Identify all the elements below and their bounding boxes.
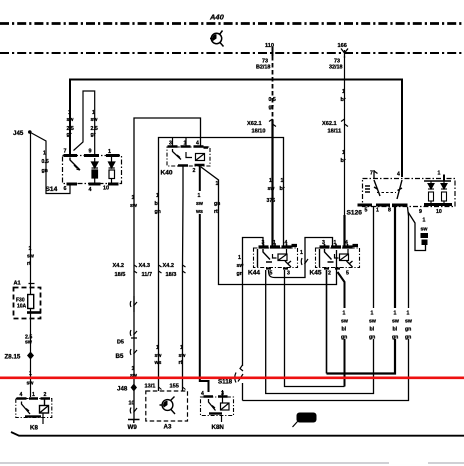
svg-text:7: 7 bbox=[370, 171, 373, 177]
svg-text:S14: S14 bbox=[46, 186, 58, 193]
svg-text:gn: gn bbox=[392, 335, 398, 341]
svg-text:sw: sw bbox=[421, 227, 429, 233]
K45 switch arm2 bbox=[347, 261, 353, 267]
svg-text:166: 166 bbox=[338, 43, 347, 49]
K8 pin labels bbox=[20, 392, 47, 398]
svg-text:110: 110 bbox=[265, 43, 274, 49]
wire J45 down to A1 bbox=[30, 133, 32, 282]
wire n-link S14 pin7/pin9 bbox=[74, 91, 95, 154]
wire S118 to U4 bbox=[242, 383, 244, 401]
svg-text:18/5: 18/5 bbox=[115, 272, 126, 278]
wire K44 to U3 bbox=[266, 207, 374, 394]
wire bold U K45 to S126 bbox=[327, 207, 396, 374]
svg-text:5: 5 bbox=[365, 208, 368, 214]
svg-text:Z8.15: Z8.15 bbox=[5, 354, 21, 361]
connector X4.3 11/7 bbox=[139, 263, 153, 278]
S126 dash-dot housing bbox=[363, 179, 456, 207]
A1 bottom terminal bbox=[27, 311, 41, 314]
suppressor blob bbox=[421, 233, 429, 245]
relay K44 bbox=[248, 240, 298, 277]
svg-text:0.5: 0.5 bbox=[269, 97, 276, 103]
svg-text:B2/18: B2/18 bbox=[256, 65, 270, 71]
svg-text:X4.3: X4.3 bbox=[139, 263, 151, 269]
svg-text:1: 1 bbox=[132, 195, 135, 201]
K8N top terminal bars bbox=[204, 395, 228, 398]
S126 gang dash link bbox=[377, 192, 396, 194]
K8N dash-dot housing bbox=[201, 397, 234, 416]
svg-text:bl: bl bbox=[393, 327, 398, 333]
svg-text:7: 7 bbox=[64, 149, 67, 155]
relay K8 bbox=[16, 392, 52, 432]
K8 coil bbox=[40, 399, 49, 414]
svg-text:32/18: 32/18 bbox=[329, 65, 343, 71]
svg-text:gn: gn bbox=[369, 335, 375, 341]
svg-text:rt: rt bbox=[179, 360, 183, 366]
wire bus L1 to K40 pin4 bbox=[134, 118, 201, 268]
svg-text:sw: sw bbox=[67, 117, 75, 123]
svg-text:6: 6 bbox=[64, 186, 67, 192]
svg-text:1: 1 bbox=[132, 366, 135, 372]
wire K40 pin2 down to K8N (bold) bbox=[200, 166, 209, 392]
K40 switch arm bbox=[173, 149, 182, 160]
A1 dashed housing bbox=[14, 288, 41, 319]
svg-text:gn: gn bbox=[405, 327, 411, 333]
svg-text:1: 1 bbox=[342, 150, 345, 156]
svg-text:sw: sw bbox=[392, 319, 400, 325]
wire K40 pin1 stub bbox=[185, 138, 187, 147]
K45 coil bbox=[335, 249, 349, 261]
relay K8N bbox=[201, 390, 234, 431]
svg-text:A40: A40 bbox=[209, 13, 225, 22]
svg-text:375: 375 bbox=[267, 198, 276, 204]
S14 top terminal bars bbox=[64, 154, 120, 157]
K8N switch arm bbox=[209, 399, 216, 411]
svg-text:D5: D5 bbox=[117, 340, 124, 346]
wire S14 pin6 to J45 bbox=[31, 133, 71, 194]
wire label 1 sw bbox=[267, 178, 276, 204]
svg-text:2: 2 bbox=[193, 168, 196, 174]
gong icon bbox=[160, 397, 176, 415]
K45 dash-dot housing bbox=[316, 248, 360, 268]
svg-text:bl: bl bbox=[370, 327, 375, 333]
connector X4.2 18/5 bbox=[113, 263, 126, 278]
svg-text:18/10: 18/10 bbox=[252, 129, 266, 135]
K8N pin labels bbox=[201, 391, 224, 397]
wire label 1 gn bbox=[214, 181, 220, 215]
svg-text:1: 1 bbox=[216, 181, 219, 187]
S126 diode branch bar bbox=[424, 180, 451, 182]
wire K44 pin3 feed from S118 bbox=[243, 238, 264, 367]
wire label 1 sw bbox=[195, 193, 204, 215]
svg-text:sw: sw bbox=[237, 263, 245, 269]
K45 bottom pins bbox=[324, 267, 340, 269]
svg-text:S126: S126 bbox=[347, 210, 363, 217]
wire K40 pin3 stub bbox=[172, 138, 174, 147]
svg-text:sw: sw bbox=[130, 203, 138, 209]
svg-text:8: 8 bbox=[388, 208, 391, 214]
svg-text:1: 1 bbox=[43, 151, 46, 157]
connector S118/4 bbox=[235, 365, 243, 383]
svg-text:1: 1 bbox=[238, 255, 241, 261]
S126 switch arm 1 bbox=[365, 180, 380, 196]
svg-text:br: br bbox=[341, 158, 346, 164]
S14 pin labels top bbox=[64, 149, 112, 156]
relay K45 bbox=[310, 240, 360, 277]
S126 switch arm 2 bbox=[397, 180, 402, 199]
svg-text:1: 1 bbox=[180, 345, 183, 351]
svg-text:2: 2 bbox=[44, 392, 47, 398]
svg-text:1: 1 bbox=[156, 345, 159, 351]
svg-text:18/3: 18/3 bbox=[166, 272, 177, 278]
K44 switch arm2 bbox=[285, 261, 291, 267]
connector X62.1 18/10 bbox=[247, 121, 266, 135]
switch unit S126 bbox=[347, 170, 456, 217]
svg-text:X4.2: X4.2 bbox=[113, 263, 125, 269]
svg-text:ws: ws bbox=[154, 360, 162, 366]
wire label 1 sw (S118 wire) bbox=[237, 255, 245, 277]
svg-text:4: 4 bbox=[89, 187, 92, 193]
svg-text:K40: K40 bbox=[161, 170, 173, 177]
S126 diode 2 bbox=[441, 181, 447, 204]
K8 dash-dot housing bbox=[16, 399, 52, 418]
wire x158 to 13/1 bbox=[158, 195, 160, 391]
terminal 30 red line bbox=[0, 376, 464, 379]
K44 top terminal bars bbox=[259, 246, 298, 248]
svg-text:rt: rt bbox=[214, 209, 218, 215]
wire label 1 sw (S14 pin7 wire) bbox=[67, 110, 75, 138]
K44 pin labels bbox=[262, 240, 288, 246]
svg-text:J45: J45 bbox=[13, 130, 24, 137]
connector X4.2 18/3 bbox=[163, 263, 177, 278]
S14 middle diode branch bbox=[92, 158, 99, 184]
svg-text:W9: W9 bbox=[128, 424, 138, 431]
control unit A3 bbox=[146, 391, 188, 431]
svg-text:10: 10 bbox=[103, 186, 109, 192]
ground rail bottom bbox=[11, 432, 464, 436]
wire S126 pin9 down to U4 bbox=[243, 207, 409, 401]
K40 pin labels bbox=[169, 141, 199, 147]
fuse box A1 bbox=[14, 281, 42, 320]
svg-text:gr: gr bbox=[91, 132, 96, 138]
wire labels 1 (x158) bbox=[154, 345, 163, 366]
wire K45 pin2 to bold U bbox=[326, 270, 328, 374]
svg-text:S118: S118 bbox=[218, 379, 233, 386]
S14 bottom terminal bars bbox=[67, 183, 119, 186]
svg-text:ws: ws bbox=[195, 209, 203, 215]
wire label 1 sw (x134) bbox=[130, 195, 138, 209]
wire label 1 sw above J48 bbox=[130, 366, 138, 379]
K40 coil bbox=[186, 152, 205, 161]
S126 diode 1 bbox=[428, 181, 434, 204]
wire label 1 bl (x158) bbox=[155, 193, 161, 215]
svg-text:gn: gn bbox=[155, 209, 161, 215]
S126 bottom terminal bars bbox=[358, 203, 453, 207]
wire label 1 br lower bbox=[341, 150, 346, 164]
wire label 0.5 gr bbox=[269, 97, 276, 111]
svg-text:gn: gn bbox=[214, 201, 220, 207]
page edge gray line bbox=[0, 462, 464, 464]
node A40 boundary dash-dot line top bbox=[0, 22, 464, 25]
svg-text:1: 1 bbox=[68, 110, 71, 116]
wire bus top rail to S14 pin7 and S126 pin4 bbox=[70, 80, 402, 178]
K8 top terminal bars bbox=[17, 397, 51, 400]
wire label 1 sw below Z8.15 bbox=[27, 371, 35, 387]
svg-text:10: 10 bbox=[436, 209, 442, 215]
svg-text:1: 1 bbox=[29, 371, 32, 377]
connector X62.1 18/11 bbox=[322, 121, 341, 135]
K8N coil bbox=[221, 397, 230, 411]
svg-text:1: 1 bbox=[198, 193, 201, 199]
svg-text:1: 1 bbox=[300, 250, 303, 256]
svg-text:0.5: 0.5 bbox=[42, 159, 49, 165]
svg-text:1: 1 bbox=[343, 311, 346, 317]
svg-text:gr: gr bbox=[67, 132, 72, 138]
svg-text:1: 1 bbox=[376, 208, 379, 214]
svg-text:A3: A3 bbox=[164, 424, 172, 431]
connector pair on x134 bbox=[130, 296, 137, 312]
K8 bottom bar bbox=[25, 415, 41, 417]
svg-text:1: 1 bbox=[394, 311, 397, 317]
svg-text:1: 1 bbox=[281, 178, 284, 184]
node A40 boundary dash-dot line bottom bbox=[0, 52, 464, 54]
wire K45 pin5 diagonal down bbox=[338, 272, 345, 387]
wire 110 bold to K44 pin1 bbox=[271, 120, 273, 246]
wire K40 pin to X4.2/18-3 bbox=[182, 166, 184, 195]
svg-text:sw: sw bbox=[341, 319, 349, 325]
svg-text:A1: A1 bbox=[14, 281, 21, 287]
svg-text:1: 1 bbox=[371, 311, 374, 317]
svg-text:sw: sw bbox=[369, 319, 377, 325]
svg-text:2: 2 bbox=[328, 271, 331, 277]
svg-text:gn: gn bbox=[405, 335, 411, 341]
K44 switch arm bbox=[258, 249, 273, 267]
wire x182 to 155 bbox=[182, 195, 185, 391]
K8 switch arm bbox=[22, 402, 31, 415]
svg-text:rt: rt bbox=[27, 261, 31, 267]
svg-text:1: 1 bbox=[29, 246, 32, 252]
wire 166 down to K45 pin4 bbox=[344, 56, 346, 215]
wire 110 dashed top bbox=[272, 56, 274, 120]
wire label 1 br bbox=[341, 89, 346, 103]
wire label 2.5 sw bbox=[25, 335, 33, 346]
node J45 bbox=[28, 130, 32, 134]
svg-text:10A: 10A bbox=[17, 304, 27, 310]
wire label 1 sw bbox=[27, 246, 35, 267]
connector on x305 bbox=[301, 258, 308, 265]
wire A1 to K8 bbox=[30, 319, 32, 397]
svg-text:gn: gn bbox=[42, 168, 48, 174]
node 110 junction bbox=[272, 47, 274, 56]
svg-text:K45: K45 bbox=[310, 270, 322, 277]
svg-text:X4.2: X4.2 bbox=[163, 263, 175, 269]
svg-text:1: 1 bbox=[269, 178, 272, 184]
svg-text:4: 4 bbox=[20, 392, 23, 398]
svg-text:3: 3 bbox=[287, 271, 290, 277]
relay K40 bbox=[161, 141, 211, 177]
wire bus L2 to K44 pin4 bbox=[159, 138, 284, 247]
S14 right resistor branch bbox=[109, 156, 115, 185]
svg-text:18/11: 18/11 bbox=[328, 129, 342, 135]
node 166 junction bbox=[341, 49, 348, 59]
K45 top terminal bars bbox=[320, 246, 359, 248]
svg-text:gn: gn bbox=[341, 335, 347, 341]
svg-text:1: 1 bbox=[407, 311, 410, 317]
svg-text:B5: B5 bbox=[116, 353, 124, 360]
svg-text:10: 10 bbox=[129, 401, 135, 407]
svg-text:gr: gr bbox=[269, 105, 274, 111]
svg-text:K44: K44 bbox=[248, 270, 260, 277]
K40 dash-dot housing bbox=[167, 147, 210, 166]
ground W9 bbox=[128, 420, 140, 424]
K40 top terminal bars bbox=[168, 147, 209, 148]
wire labels 1 (x182) bbox=[179, 345, 187, 366]
svg-text:488: 488 bbox=[300, 417, 311, 423]
switch S14 bbox=[46, 149, 122, 194]
wire S126 pin9 branch to suppressor bbox=[408, 212, 426, 251]
connector B5 bbox=[130, 349, 137, 355]
svg-text:sw: sw bbox=[405, 319, 413, 325]
svg-text:1: 1 bbox=[32, 392, 35, 398]
K45 switch arm bbox=[320, 249, 334, 267]
S14 switch arm bbox=[70, 158, 80, 171]
svg-text:9: 9 bbox=[89, 149, 92, 155]
wire label 1 br (x283) bbox=[280, 178, 285, 192]
wire labels 1 sw bl gn columns bbox=[341, 311, 349, 341]
S126 bottom pin labels bbox=[365, 208, 442, 216]
svg-text:br: br bbox=[280, 186, 285, 192]
svg-text:13/1: 13/1 bbox=[145, 384, 156, 390]
A1 pin connector bbox=[29, 282, 35, 295]
svg-text:gn: gn bbox=[237, 271, 243, 277]
K44 coil bbox=[273, 249, 288, 261]
svg-text:bl: bl bbox=[342, 327, 347, 333]
svg-text:sw: sw bbox=[268, 186, 276, 192]
svg-text:9: 9 bbox=[419, 209, 422, 215]
svg-text:sw: sw bbox=[91, 117, 99, 123]
connector D5 bbox=[130, 330, 137, 338]
svg-text:sw: sw bbox=[27, 381, 35, 387]
svg-text:1: 1 bbox=[438, 171, 441, 177]
svg-text:X62.1: X62.1 bbox=[247, 121, 262, 127]
svg-text:5: 5 bbox=[346, 271, 349, 277]
svg-text:sw: sw bbox=[27, 254, 35, 260]
svg-text:1: 1 bbox=[342, 89, 345, 95]
svg-text:br: br bbox=[341, 97, 346, 103]
svg-text:sw: sw bbox=[179, 353, 187, 359]
clock icon symbol bbox=[210, 31, 224, 47]
K40 bottom bar pin2 bbox=[178, 164, 205, 167]
svg-text:155: 155 bbox=[170, 384, 179, 390]
wire K40 diagonal output to K45 pin1 bbox=[201, 167, 337, 285]
svg-text:J48: J48 bbox=[117, 386, 128, 393]
svg-text:K8: K8 bbox=[30, 425, 38, 432]
node Z8.15 bbox=[27, 352, 34, 360]
svg-text:1: 1 bbox=[92, 110, 95, 116]
node J48 bbox=[131, 384, 137, 392]
reference tag (488) bbox=[293, 413, 317, 428]
svg-text:K8N: K8N bbox=[212, 424, 225, 431]
K8N bottom bar bbox=[209, 412, 222, 414]
K45 pin labels bbox=[322, 240, 348, 246]
svg-text:sw: sw bbox=[155, 353, 163, 359]
wire label 1 (S14 pin9 wire) bbox=[91, 110, 99, 138]
S14 pin labels bottom bbox=[64, 186, 110, 194]
wire label 1 sw bbox=[421, 218, 429, 233]
connector W on ground wire bbox=[130, 408, 137, 414]
K44 bottom pins bbox=[266, 267, 288, 269]
svg-text:1: 1 bbox=[423, 218, 426, 224]
wire x134 to B5/J48/W9 bbox=[133, 268, 135, 419]
wire K44 pin5 curve to K45 pin3 bbox=[269, 238, 333, 278]
svg-text:sw: sw bbox=[25, 340, 33, 346]
svg-text:4: 4 bbox=[397, 172, 400, 178]
wire U2 K44 pin4 branch bbox=[285, 270, 345, 387]
svg-text:11/7: 11/7 bbox=[142, 272, 153, 278]
K44 dash-dot housing bbox=[254, 248, 298, 268]
svg-text:X62.1: X62.1 bbox=[322, 121, 337, 127]
fuse F30 bbox=[28, 295, 34, 309]
S14 dash-dot housing bbox=[63, 156, 122, 184]
svg-text:sw: sw bbox=[196, 201, 204, 207]
wire label 0.5 gn bbox=[42, 151, 49, 175]
